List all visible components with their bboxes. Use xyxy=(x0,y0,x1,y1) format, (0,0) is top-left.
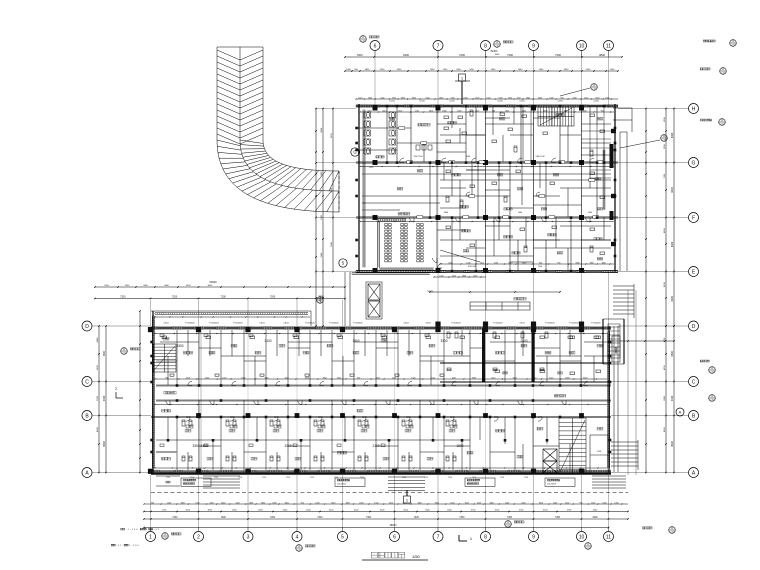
svg-text:TJ10: TJ10 xyxy=(310,477,314,479)
svg-text:1200: 1200 xyxy=(582,110,586,112)
svg-text:2: 2 xyxy=(115,387,117,391)
svg-text:3400: 3400 xyxy=(671,395,674,401)
svg-text:TJ10: TJ10 xyxy=(238,477,242,479)
svg-text:1800: 1800 xyxy=(285,502,289,504)
svg-text:1800: 1800 xyxy=(442,110,446,112)
svg-text:FY1545020: FY1545020 xyxy=(591,323,600,325)
svg-text:C2415: C2415 xyxy=(557,101,563,103)
svg-text:48000: 48000 xyxy=(390,524,398,527)
svg-text:1500 2100: 1500 2100 xyxy=(414,156,423,158)
svg-text:3300: 3300 xyxy=(472,377,476,379)
svg-text:2100: 2100 xyxy=(494,262,498,264)
svg-text:3400: 3400 xyxy=(103,395,106,401)
svg-text:7200: 7200 xyxy=(459,53,465,57)
svg-text:7200: 7200 xyxy=(414,517,420,519)
svg-text:1200: 1200 xyxy=(516,97,520,99)
svg-text:TJ10: TJ10 xyxy=(524,477,528,479)
svg-text:1200: 1200 xyxy=(549,97,553,99)
svg-text:G: G xyxy=(692,160,696,166)
svg-text:6: 6 xyxy=(393,534,396,540)
svg-text:1800: 1800 xyxy=(331,502,335,504)
svg-text:3300 2100: 3300 2100 xyxy=(192,444,207,448)
svg-text:FY1545020: FY1545020 xyxy=(545,323,554,325)
svg-text:2400: 2400 xyxy=(448,262,452,264)
svg-text:1200: 1200 xyxy=(389,502,393,504)
svg-text:J-16: J-16 xyxy=(586,548,589,550)
svg-text:7300: 7300 xyxy=(555,517,561,519)
svg-text:1: 1 xyxy=(149,534,152,540)
svg-text:7300: 7300 xyxy=(357,53,363,57)
svg-text:J-16: J-16 xyxy=(710,400,713,402)
svg-text:900: 900 xyxy=(151,502,154,504)
svg-text:1500: 1500 xyxy=(465,502,469,504)
svg-text:1500: 1500 xyxy=(473,275,477,277)
svg-text:1/50: 1/50 xyxy=(412,554,421,559)
svg-text:FY1545020: FY1545020 xyxy=(451,323,460,325)
svg-text:1800: 1800 xyxy=(601,262,605,264)
svg-text:C2415: C2415 xyxy=(389,101,395,103)
svg-text:1200: 1200 xyxy=(235,502,239,504)
svg-text:2100: 2100 xyxy=(450,97,454,99)
svg-text:1200: 1200 xyxy=(358,97,362,99)
svg-text:1200: 1200 xyxy=(602,502,606,504)
svg-text:8000: 8000 xyxy=(671,187,674,193)
svg-text:900: 900 xyxy=(301,502,304,504)
svg-text:FY1545020: FY1545020 xyxy=(493,323,502,325)
svg-text:1800: 1800 xyxy=(605,97,609,99)
svg-text:J-16: J-16 xyxy=(670,532,673,534)
svg-text:1800: 1800 xyxy=(588,212,592,214)
svg-text:8: 8 xyxy=(484,534,487,540)
svg-text:9: 9 xyxy=(532,43,535,49)
svg-text:3600: 3600 xyxy=(444,212,448,214)
svg-text:7300: 7300 xyxy=(555,53,561,57)
svg-text:3300: 3300 xyxy=(322,377,326,379)
svg-text:2400: 2400 xyxy=(521,502,525,504)
svg-text:FY1545020: FY1545020 xyxy=(209,323,218,325)
svg-text:1800: 1800 xyxy=(539,502,543,504)
svg-text:2100: 2100 xyxy=(186,377,190,379)
svg-text:A: A xyxy=(679,409,682,414)
svg-text:2100: 2100 xyxy=(264,339,271,343)
svg-text:900: 900 xyxy=(601,110,604,112)
svg-text:F: F xyxy=(692,215,695,221)
svg-text:TJ10: TJ10 xyxy=(448,477,452,479)
svg-text:C3013: C3013 xyxy=(519,323,524,325)
svg-text:900: 900 xyxy=(539,262,542,264)
svg-text:1200: 1200 xyxy=(222,377,226,379)
svg-text:2100: 2100 xyxy=(572,97,576,99)
svg-text:3300: 3300 xyxy=(440,339,447,343)
svg-text:1500: 1500 xyxy=(584,97,588,99)
svg-text:J16-23/08: J16-23/08 xyxy=(547,483,557,485)
svg-text:C: C xyxy=(692,379,696,385)
svg-text:6: 6 xyxy=(374,43,377,49)
svg-text:1800: 1800 xyxy=(439,97,443,99)
svg-text:J-16: J-16 xyxy=(662,140,665,142)
svg-text:7300: 7300 xyxy=(507,53,513,57)
svg-text:J-16: J-16 xyxy=(495,46,498,48)
svg-text:J-16: J-16 xyxy=(721,73,724,75)
svg-text:1800: 1800 xyxy=(463,97,467,99)
svg-text:1800: 1800 xyxy=(241,377,245,379)
svg-text:C3013: C3013 xyxy=(259,323,264,325)
svg-text:1200: 1200 xyxy=(498,97,502,99)
svg-text:2400: 2400 xyxy=(221,502,225,504)
svg-text:7300: 7300 xyxy=(366,517,372,519)
svg-text:1800: 1800 xyxy=(261,502,265,504)
svg-text:2100: 2100 xyxy=(359,502,363,504)
svg-text:3300: 3300 xyxy=(412,97,416,99)
svg-text:1800: 1800 xyxy=(249,502,253,504)
svg-text:J-16: J-16 xyxy=(720,124,723,126)
svg-text:2100: 2100 xyxy=(450,502,454,504)
svg-text:2400: 2400 xyxy=(380,97,384,99)
svg-text:4: 4 xyxy=(296,534,299,540)
svg-text:3300: 3300 xyxy=(264,377,268,379)
svg-text:C3013: C3013 xyxy=(283,323,288,325)
svg-text:1200: 1200 xyxy=(565,502,569,504)
svg-text:2400: 2400 xyxy=(520,339,527,343)
svg-text:2400: 2400 xyxy=(526,97,530,99)
svg-text:8500: 8500 xyxy=(103,441,106,447)
svg-text:1800: 1800 xyxy=(462,275,466,277)
svg-text:3300 900: 3300 900 xyxy=(468,266,476,268)
svg-text:TJ10: TJ10 xyxy=(166,477,170,479)
svg-text:1500: 1500 xyxy=(352,339,359,343)
svg-text:900: 900 xyxy=(557,262,560,264)
svg-text:8: 8 xyxy=(484,43,487,49)
svg-text:1200: 1200 xyxy=(167,502,171,504)
svg-text:J-16: J-16 xyxy=(122,353,125,355)
svg-text:7300: 7300 xyxy=(317,517,323,519)
svg-text:2400: 2400 xyxy=(518,212,522,214)
svg-text:3300: 3300 xyxy=(305,377,309,379)
svg-text:3: 3 xyxy=(247,534,250,540)
svg-text:1800: 1800 xyxy=(505,110,509,112)
svg-text:8500: 8500 xyxy=(671,350,674,356)
svg-text:1500: 1500 xyxy=(376,377,380,379)
svg-text:1500: 1500 xyxy=(195,502,199,504)
svg-text:J-16: J-16 xyxy=(361,41,364,43)
svg-text:TJ10: TJ10 xyxy=(262,477,266,479)
svg-text:2100: 2100 xyxy=(538,266,542,268)
svg-text:11: 11 xyxy=(606,534,611,540)
svg-text:J-16: J-16 xyxy=(506,526,509,528)
svg-text:H: H xyxy=(692,106,696,112)
svg-text:1800: 1800 xyxy=(589,262,593,264)
svg-text:C: C xyxy=(85,379,89,385)
svg-text:2400: 2400 xyxy=(382,110,386,112)
svg-text:2100: 2100 xyxy=(595,97,599,99)
svg-text:8000: 8000 xyxy=(671,241,674,247)
svg-text:3300: 3300 xyxy=(398,110,402,112)
svg-text:1800: 1800 xyxy=(346,502,350,504)
svg-text:1800: 1800 xyxy=(429,110,433,112)
svg-text:3300: 3300 xyxy=(575,262,579,264)
svg-text:1800: 1800 xyxy=(565,377,569,379)
svg-text:C2415: C2415 xyxy=(419,101,425,103)
svg-text:53600: 53600 xyxy=(209,280,217,284)
svg-text:J-16: J-16 xyxy=(297,550,300,552)
svg-text:FY1545020: FY1545020 xyxy=(353,323,362,325)
svg-text:9: 9 xyxy=(532,534,535,540)
svg-text:TJ10: TJ10 xyxy=(360,477,364,479)
svg-text:TJ10: TJ10 xyxy=(286,477,290,479)
svg-text:1800: 1800 xyxy=(489,502,493,504)
svg-text:7200: 7200 xyxy=(221,517,227,519)
svg-text:1500: 1500 xyxy=(466,262,470,264)
svg-text:1200: 1200 xyxy=(315,502,319,504)
svg-text:1800: 1800 xyxy=(368,97,372,99)
svg-text:1200: 1200 xyxy=(451,377,455,379)
svg-text:3300: 3300 xyxy=(435,502,439,504)
svg-text:1500: 1500 xyxy=(508,262,512,264)
svg-text:5: 5 xyxy=(341,534,344,540)
svg-text:900: 900 xyxy=(579,502,582,504)
svg-text:4000: 4000 xyxy=(592,517,598,519)
svg-text:9400: 9400 xyxy=(403,53,409,57)
svg-text:3300: 3300 xyxy=(538,97,542,99)
svg-text:3300: 3300 xyxy=(508,97,512,99)
svg-text:D: D xyxy=(85,324,89,330)
svg-text:1800: 1800 xyxy=(457,110,461,112)
svg-text:1200: 1200 xyxy=(591,502,595,504)
svg-text:C3013: C3013 xyxy=(163,323,168,325)
svg-text:900: 900 xyxy=(492,110,495,112)
svg-text:1200: 1200 xyxy=(284,377,288,379)
svg-text:7200: 7200 xyxy=(270,517,276,519)
svg-text:C2415: C2415 xyxy=(449,101,455,103)
svg-text:2: 2 xyxy=(197,534,200,540)
svg-text:1500: 1500 xyxy=(505,502,509,504)
svg-text:7: 7 xyxy=(437,43,440,49)
svg-text:1500: 1500 xyxy=(456,444,463,448)
svg-text:J16-23/05: J16-23/05 xyxy=(337,483,347,485)
svg-text:FY1545020: FY1545020 xyxy=(305,323,314,325)
svg-text:1200: 1200 xyxy=(209,502,213,504)
svg-text:2100: 2100 xyxy=(415,110,419,112)
svg-text:FY1545020: FY1545020 xyxy=(185,323,194,325)
svg-text:TJ10: TJ10 xyxy=(214,477,218,479)
svg-text:1200: 1200 xyxy=(614,502,618,504)
svg-text:1800: 1800 xyxy=(417,502,421,504)
svg-text:1200: 1200 xyxy=(439,275,443,277)
svg-text:10: 10 xyxy=(579,43,585,49)
svg-text:1500: 1500 xyxy=(513,377,517,379)
svg-text:2400 1200: 2400 1200 xyxy=(536,156,545,158)
svg-text:1500: 1500 xyxy=(475,97,479,99)
svg-text:82300: 82300 xyxy=(491,50,498,53)
svg-text:7200: 7200 xyxy=(270,296,276,299)
svg-text:2400: 2400 xyxy=(477,502,481,504)
svg-text:3300: 3300 xyxy=(272,502,276,504)
svg-text:3300: 3300 xyxy=(466,156,470,158)
svg-text:3300: 3300 xyxy=(583,377,587,379)
svg-text:2100: 2100 xyxy=(392,97,396,99)
svg-text:7300: 7300 xyxy=(507,517,513,519)
svg-text:11: 11 xyxy=(606,43,611,49)
svg-text:J-16: J-16 xyxy=(731,45,734,47)
svg-text:8000: 8000 xyxy=(671,132,674,138)
svg-text:3300: 3300 xyxy=(176,344,183,348)
svg-text:3300: 3300 xyxy=(181,502,185,504)
svg-text:1500: 1500 xyxy=(486,97,490,99)
svg-text:2100: 2100 xyxy=(372,444,379,448)
svg-text:2100: 2100 xyxy=(431,377,435,379)
svg-text:D: D xyxy=(692,324,696,330)
svg-text:G: G xyxy=(353,150,356,155)
svg-text:4800: 4800 xyxy=(599,53,605,57)
svg-text:1500: 1500 xyxy=(411,377,415,379)
svg-text:900: 900 xyxy=(561,97,564,99)
svg-text:C2415: C2415 xyxy=(519,101,525,103)
svg-text:J-16: J-16 xyxy=(592,89,595,91)
svg-text:J-16: J-16 xyxy=(318,302,321,304)
svg-text:3300: 3300 xyxy=(284,444,291,448)
svg-text:1500: 1500 xyxy=(532,377,536,379)
svg-text:2100: 2100 xyxy=(491,377,495,379)
svg-text:1800: 1800 xyxy=(522,262,526,264)
svg-text:TJ10: TJ10 xyxy=(190,477,194,479)
svg-text:1800: 1800 xyxy=(475,110,479,112)
svg-text:FY1545020: FY1545020 xyxy=(569,323,578,325)
svg-text:900: 900 xyxy=(357,377,360,379)
svg-text:C2415: C2415 xyxy=(593,101,599,103)
svg-text:FY1545020: FY1545020 xyxy=(233,323,242,325)
svg-text:2100: 2100 xyxy=(549,377,553,379)
svg-text:J-16: J-16 xyxy=(163,538,166,540)
svg-text:8000: 8000 xyxy=(671,295,674,301)
svg-text:7300: 7300 xyxy=(459,517,465,519)
svg-text:C3013: C3013 xyxy=(425,323,430,325)
svg-text:7200: 7200 xyxy=(120,296,126,299)
svg-text:900: 900 xyxy=(165,377,168,379)
svg-text:7200: 7200 xyxy=(172,296,178,299)
svg-text:7300: 7300 xyxy=(172,517,178,519)
svg-text:1800: 1800 xyxy=(401,97,405,99)
svg-text:FY1545020: FY1545020 xyxy=(329,323,338,325)
svg-text:1200: 1200 xyxy=(553,502,557,504)
svg-text:J-16: J-16 xyxy=(710,372,713,374)
svg-text:1500: 1500 xyxy=(480,262,484,264)
svg-text:1200: 1200 xyxy=(337,377,341,379)
svg-text:TJ10: TJ10 xyxy=(472,477,476,479)
svg-text:2400: 2400 xyxy=(205,377,209,379)
svg-text:C3013: C3013 xyxy=(403,323,408,325)
svg-text:TJ10: TJ10 xyxy=(500,477,504,479)
svg-text:1500: 1500 xyxy=(425,97,429,99)
svg-text:8500: 8500 xyxy=(671,441,674,447)
svg-text:7: 7 xyxy=(437,534,440,540)
svg-text:C2415: C2415 xyxy=(497,101,503,103)
svg-text:TJ10: TJ10 xyxy=(334,477,338,479)
svg-text:10: 10 xyxy=(579,534,585,540)
svg-text:1500: 1500 xyxy=(374,502,378,504)
svg-text:7200: 7200 xyxy=(221,296,227,299)
svg-text:7000: 7000 xyxy=(103,350,106,356)
svg-text:1200: 1200 xyxy=(392,377,396,379)
svg-text:2100: 2100 xyxy=(452,275,456,277)
svg-text:2400: 2400 xyxy=(522,110,526,112)
